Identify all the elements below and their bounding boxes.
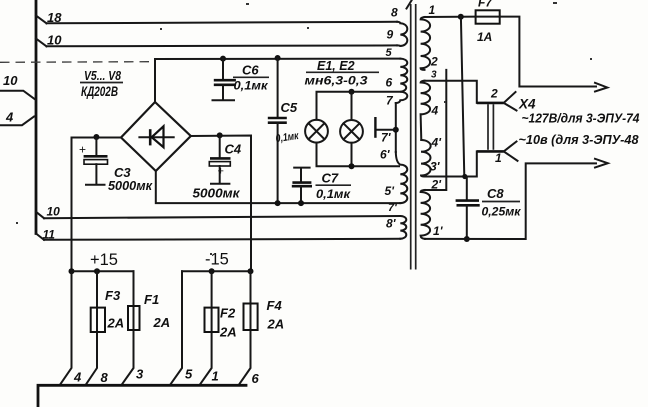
node 3' C8 junction bbox=[462, 174, 467, 179]
wire 7 to 7' node bbox=[395, 103, 397, 152]
transformer T core line 2 bbox=[415, 4, 417, 270]
wire 18 (to transformer pin 8) bbox=[47, 22, 398, 24]
svg-text:2: 2 bbox=[430, 55, 438, 69]
svg-text:4: 4 bbox=[431, 104, 439, 118]
wire contact 1 to 3' line bbox=[425, 151, 477, 176]
svg-text:V5... V8: V5... V8 bbox=[84, 68, 122, 83]
node 7' junction bbox=[393, 127, 399, 133]
wire -15 bar bbox=[182, 270, 251, 272]
capacitor C8 0,25mk bbox=[456, 177, 480, 240]
lamps E1 E2 label block bbox=[305, 59, 380, 88]
svg-text:-15: -15 bbox=[205, 251, 229, 269]
svg-text:+: + bbox=[218, 166, 224, 178]
connector X4 mating link (twin lines) bbox=[488, 104, 493, 150]
capacitor C5 0,1mk bbox=[268, 58, 287, 203]
wire 8' (line to transformer 8') bbox=[44, 239, 400, 240]
wire pin 3 to X4 contact 2 bbox=[425, 81, 477, 103]
shield dashed line bbox=[0, 61, 152, 64]
svg-text:1: 1 bbox=[495, 151, 502, 165]
scan speckles bbox=[16, 2, 592, 255]
svg-text:8': 8' bbox=[386, 217, 397, 231]
diodes V5..V8 label bbox=[80, 68, 123, 99]
svg-text:6: 6 bbox=[386, 76, 393, 90]
svg-text:3: 3 bbox=[136, 367, 144, 382]
left connector bus (vertical) bbox=[35, 0, 38, 234]
svg-text:1: 1 bbox=[429, 3, 436, 17]
wire 8' branch diagonal bbox=[36, 234, 44, 240]
wire 9' branch diagonal bbox=[36, 212, 44, 218]
svg-text:5': 5' bbox=[385, 184, 396, 198]
node F3 junction bbox=[94, 268, 100, 274]
fuse F4 bbox=[244, 304, 258, 331]
wire 9' (line to transformer 9') bbox=[44, 216, 400, 218]
wire F7 junction down to node 3' bbox=[461, 17, 464, 177]
node -15 rail junction bbox=[248, 268, 254, 274]
capacitor C3 (electrolytic 5000mk) bbox=[79, 138, 108, 185]
svg-text:5: 5 bbox=[386, 47, 393, 59]
wire bridge bottom to 5' line bbox=[156, 171, 400, 203]
connector X4 contact 1 bar bbox=[477, 150, 504, 153]
wire 7' stub bbox=[378, 129, 396, 131]
svg-text:C5: C5 bbox=[281, 100, 298, 115]
transformer winding 9'-8' bbox=[400, 216, 406, 239]
wire 10 (to transformer pin 9) bbox=[47, 44, 398, 47]
capacitor C4 (electrolytic 5000mk) bbox=[209, 136, 230, 184]
svg-text:2A: 2A bbox=[153, 315, 171, 330]
node C3 top junction bbox=[93, 134, 99, 140]
svg-text:2: 2 bbox=[490, 87, 498, 101]
wire F2 drop with diagonal bbox=[200, 271, 212, 385]
bottom bus bar bbox=[38, 385, 246, 407]
svg-text:6': 6' bbox=[380, 148, 391, 162]
wire F1 drop with diagonal bbox=[122, 271, 134, 385]
wire lamp E2 bottom lead bbox=[351, 143, 353, 167]
wire pin 5 drop with diagonal bbox=[170, 271, 182, 385]
output arrow ~127V bbox=[595, 83, 607, 92]
svg-text:КД202В: КД202В bbox=[81, 84, 118, 99]
wire fuse F7 output to arrow corner bbox=[500, 17, 596, 87]
svg-text:4': 4' bbox=[431, 136, 443, 150]
contact 1 fork bbox=[504, 142, 518, 161]
node F2 junction bbox=[209, 268, 215, 274]
svg-text:C4: C4 bbox=[225, 142, 242, 157]
svg-text:мн6,3-0,3: мн6,3-0,3 bbox=[305, 74, 368, 88]
svg-text:5: 5 bbox=[185, 367, 193, 382]
svg-text:4: 4 bbox=[5, 110, 14, 125]
connector X4 contact 2 bar bbox=[477, 102, 504, 105]
svg-text:~127В/для 3-ЭПУ-74: ~127В/для 3-ЭПУ-74 bbox=[522, 111, 641, 126]
node lamp E2 bottom junction bbox=[349, 163, 355, 169]
label C6 with value bbox=[233, 63, 269, 93]
transformer winding 4'-3' bbox=[421, 140, 431, 177]
node C5 bottom junction bbox=[275, 200, 281, 206]
svg-text:+15: +15 bbox=[90, 251, 118, 269]
svg-text:F2: F2 bbox=[220, 306, 236, 321]
svg-text:+: + bbox=[79, 143, 86, 157]
svg-text:0,25мк: 0,25мк bbox=[482, 205, 522, 219]
node C7 bottom junction bbox=[298, 200, 304, 206]
node C5 top junction bbox=[275, 55, 281, 61]
svg-text:F3: F3 bbox=[105, 288, 121, 303]
node +rail top wire (left rail corner to bridge left vertex) bbox=[72, 138, 122, 272]
node +15 rail junction bbox=[69, 268, 75, 274]
svg-text:6: 6 bbox=[252, 371, 260, 386]
svg-text:0,1мк: 0,1мк bbox=[316, 187, 351, 201]
label C8 with value bbox=[482, 186, 522, 219]
fuse F1 bbox=[128, 306, 140, 330]
svg-text:1A: 1A bbox=[477, 30, 492, 44]
wire pin 4 drop with diagonal bbox=[60, 271, 72, 385]
transformer winding 5-6-7 bbox=[396, 59, 408, 103]
wire bridge top to pin5 line bbox=[155, 59, 400, 102]
svg-text:X4: X4 bbox=[518, 97, 536, 112]
output arrow ~10V bbox=[595, 159, 608, 168]
svg-text:7': 7' bbox=[381, 131, 392, 145]
transformer T core line 1 bbox=[410, 4, 412, 270]
wire 2 to 2' link bbox=[425, 70, 447, 190]
transformer winding 3-4 bbox=[421, 81, 431, 140]
transformer winding 1-2 (primary) bbox=[421, 17, 431, 70]
svg-text:C8: C8 bbox=[487, 186, 504, 201]
svg-text:10: 10 bbox=[47, 33, 62, 48]
transformer winding 2'-1' bbox=[421, 190, 431, 239]
svg-text:9: 9 bbox=[387, 28, 394, 42]
svg-text:C7: C7 bbox=[322, 171, 339, 186]
transformer winding 8-9 bbox=[397, 22, 407, 46]
svg-text:7': 7' bbox=[388, 202, 397, 214]
wire F4 drop with diagonal bbox=[239, 271, 251, 385]
capacitor C7 0,1mk bbox=[292, 168, 312, 204]
bridge diode symbol bbox=[139, 126, 173, 147]
wire pin18 branch diagonal bbox=[36, 16, 47, 24]
bridge rectifier V5..V8 diamond bbox=[121, 102, 191, 171]
svg-text:3: 3 bbox=[431, 70, 437, 81]
svg-text:1: 1 bbox=[212, 369, 219, 384]
lamp E2 bbox=[340, 120, 363, 143]
wire pin10 branch diagonal bbox=[36, 39, 47, 47]
svg-text:C6: C6 bbox=[242, 63, 259, 78]
svg-text:C3: C3 bbox=[114, 165, 131, 180]
svg-text:8: 8 bbox=[391, 6, 398, 20]
transformer winding 6'-5' bbox=[396, 152, 408, 203]
fuse F2 bbox=[205, 308, 219, 332]
wire lamp bottom line (to 6') bbox=[317, 143, 400, 167]
svg-text:E1, E2: E1, E2 bbox=[317, 59, 355, 73]
svg-text:2A: 2A bbox=[219, 325, 237, 340]
wire F3 drop with diagonal bbox=[86, 271, 97, 385]
svg-text:2A: 2A bbox=[107, 316, 125, 331]
svg-text:F7: F7 bbox=[478, 0, 493, 10]
svg-text:10: 10 bbox=[3, 73, 18, 88]
wire 4 entry bbox=[0, 117, 34, 126]
wire 10 entry bbox=[0, 91, 35, 100]
contact 2 fork bbox=[504, 92, 517, 111]
fuse F7 bbox=[476, 10, 500, 23]
svg-text:8: 8 bbox=[101, 370, 109, 385]
svg-text:4: 4 bbox=[73, 370, 82, 385]
node C8 bottom junction bbox=[464, 236, 470, 242]
svg-text:1': 1' bbox=[433, 224, 444, 238]
wire lamp E2 top lead bbox=[351, 92, 353, 120]
fuse F3 bbox=[91, 308, 105, 332]
wire +15 bar bbox=[72, 270, 134, 272]
svg-text:~10в (для 3-ЭПУ-48: ~10в (для 3-ЭПУ-48 bbox=[519, 132, 640, 147]
svg-text:10: 10 bbox=[47, 205, 61, 219]
wire pin 1 to fuse F7 bbox=[425, 16, 476, 18]
label C7 with value bbox=[316, 171, 352, 202]
wire lamp top line (to pin 6) bbox=[317, 92, 401, 120]
capacitor C6 0,1mk bbox=[213, 59, 236, 101]
svg-text:0,1мк: 0,1мк bbox=[234, 79, 269, 93]
wire bridge right vertex to right rail bbox=[191, 136, 251, 272]
svg-text:2A: 2A bbox=[267, 317, 285, 332]
wire 1' line to output corner bbox=[425, 163, 596, 239]
node F7 input junction bbox=[458, 14, 464, 20]
contact 7' bar bbox=[374, 117, 376, 138]
transformer top tick bbox=[407, 1, 412, 9]
lamp E1 bbox=[305, 120, 328, 143]
svg-text:5000мк: 5000мк bbox=[193, 187, 241, 201]
svg-text:5000мк: 5000мк bbox=[108, 179, 153, 193]
node C6 junction on pin5 line bbox=[220, 56, 226, 62]
svg-text:3': 3' bbox=[430, 160, 441, 174]
svg-text:F1: F1 bbox=[144, 292, 159, 307]
svg-text:F4: F4 bbox=[267, 298, 283, 313]
node lamp E2 top junction bbox=[349, 89, 355, 95]
node C4 top junction bbox=[217, 132, 223, 138]
